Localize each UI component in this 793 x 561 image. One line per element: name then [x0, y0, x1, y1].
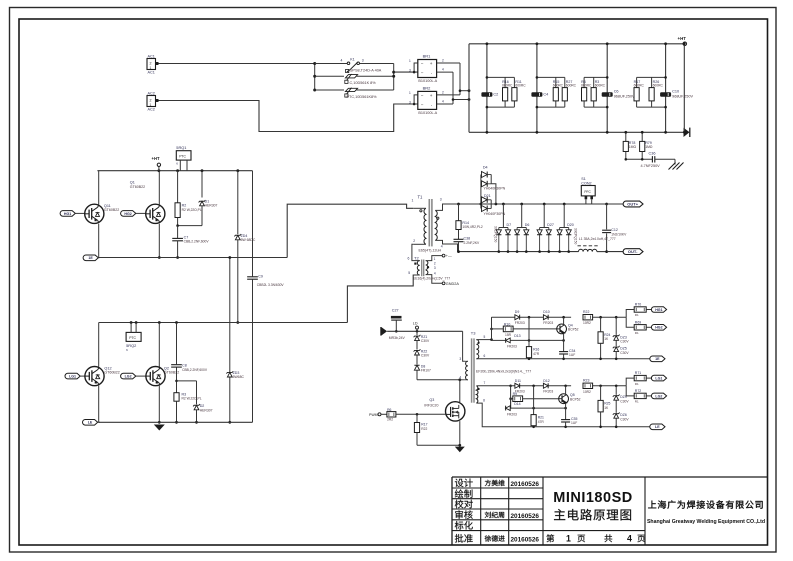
wire negative bottom bus	[469, 131, 684, 133]
net flag 1E return	[650, 356, 665, 362]
svg-text:R70: R70	[635, 303, 641, 307]
svg-text:3: 3	[362, 59, 364, 63]
zener RZ1	[414, 331, 430, 343]
wire AC2 to bridge BR2	[159, 101, 419, 132]
svg-text:1: 1	[409, 59, 411, 63]
resistor R79	[640, 131, 653, 159]
resistor R9	[511, 392, 559, 401]
svg-text:C6: C6	[614, 90, 619, 94]
capacitor C4	[531, 92, 548, 97]
svg-text:PFC: PFC	[584, 190, 591, 194]
capacitor C10	[660, 90, 693, 99]
svg-text:C,10D561K 8%: C,10D561K 8%	[350, 81, 377, 85]
resistor R10	[492, 322, 558, 337]
svg-text:BR2: BR2	[423, 86, 432, 91]
svg-text:HG2: HG2	[124, 212, 131, 216]
wire Q2 collector	[158, 323, 160, 367]
svg-text:C35: C35	[571, 417, 577, 421]
svg-text:1E: 1E	[88, 256, 93, 260]
transformer T2 primary winding	[408, 256, 420, 275]
svg-text:OUT-: OUT-	[628, 249, 638, 254]
wire bus right rail	[683, 42, 686, 133]
svg-text:R1: R1	[635, 331, 639, 335]
title block drawing title	[553, 490, 632, 521]
transformer T3 secondary winding ch1	[476, 340, 479, 359]
svg-text:MINI180SD: MINI180SD	[553, 490, 632, 506]
svg-text:PTC: PTC	[129, 336, 136, 340]
svg-text:CBB,2.2NF,600V: CBB,2.2NF,600V	[182, 368, 208, 372]
wire Q2 emitter	[158, 386, 161, 424]
wire snubber rail for cell C2	[486, 42, 489, 133]
svg-text:C7: C7	[184, 235, 189, 239]
wire bus left rail	[468, 44, 470, 133]
svg-text:C12: C12	[611, 228, 618, 232]
resistor R16	[502, 80, 513, 101]
resistor R69 gate drive	[626, 317, 652, 335]
transistor Q3	[424, 398, 465, 421]
svg-text:968UF,250V: 968UF,250V	[672, 95, 693, 99]
net flag LE lower emitter	[83, 420, 101, 426]
wire snubber rail for cell C4	[536, 42, 539, 133]
svg-text:Q4: Q4	[568, 323, 573, 327]
svg-text:R1: R1	[635, 313, 639, 317]
svg-text:YH040F30PN: YH040F30PN	[484, 186, 506, 190]
svg-text:HER307: HER307	[205, 204, 218, 208]
svg-text:3: 3	[409, 68, 411, 72]
svg-text:30CPQ150: 30CPQ150	[573, 228, 577, 244]
svg-text:6: 6	[484, 354, 486, 358]
svg-text:R22: R22	[421, 427, 427, 431]
wire ch1 top rail	[492, 316, 627, 319]
svg-text:−: −	[421, 103, 424, 108]
PTC resistor 5RQ2	[126, 323, 141, 353]
svg-text:BR1: BR1	[423, 54, 432, 59]
svg-text:600RC: 600RC	[502, 84, 513, 88]
wire Q12 collector	[98, 323, 100, 367]
svg-text:5: 5	[484, 335, 486, 339]
capacitor C6	[602, 90, 635, 99]
diode D8	[414, 355, 431, 380]
svg-text:K1: K1	[350, 58, 354, 62]
svg-text:C27: C27	[392, 309, 399, 313]
wire 24V rail	[387, 330, 463, 332]
resistor R21	[531, 386, 544, 428]
varistor RV2	[315, 88, 394, 99]
diode D9	[515, 310, 525, 325]
wire D8 to Q3 drain node	[417, 378, 461, 381]
svg-text:B10100L.A: B10100L.A	[418, 111, 437, 115]
wire T1 secondary top output	[435, 204, 458, 210]
transistor Q1	[130, 181, 165, 224]
svg-text:968UF,250V: 968UF,250V	[614, 95, 635, 99]
transformer T1 secondary winding	[413, 198, 443, 249]
svg-text:LG1: LG1	[655, 377, 662, 381]
svg-text:600RC: 600RC	[566, 84, 577, 88]
svg-text:600RC: 600RC	[595, 84, 606, 88]
wire T2 pin4 to GND2A terminal	[426, 275, 460, 286]
transistor Q5	[559, 386, 581, 408]
svg-text:1: 1	[566, 534, 571, 544]
svg-text:CBB2L 3.3N/630V: CBB2L 3.3N/630V	[257, 283, 285, 287]
svg-text:Q5: Q5	[570, 393, 575, 397]
connector AC1	[147, 54, 159, 74]
svg-text:D9: D9	[515, 310, 520, 314]
svg-text:D4: D4	[483, 166, 488, 170]
svg-text:IRF3C20: IRF3C20	[424, 404, 438, 408]
svg-text:Shanghai Greatway Welding Equi: Shanghai Greatway Welding Equipment CO.,…	[647, 519, 765, 525]
svg-text:R2: R2	[182, 203, 187, 207]
svg-text:SPS8,T24D-A 40A: SPS8,T24D-A 40A	[350, 69, 382, 73]
net flag OUT+	[607, 201, 643, 207]
resistor R26	[649, 80, 663, 101]
capacitor C8	[171, 323, 208, 393]
svg-text:20160526: 20160526	[511, 481, 540, 488]
diode D21 pair	[482, 194, 506, 216]
svg-text:GT60B22: GT60B22	[104, 371, 119, 375]
svg-text:+: +	[430, 61, 433, 66]
resistor R3	[591, 80, 605, 101]
wire ZD3 branch vertical	[228, 256, 231, 424]
svg-text:DZ5: DZ5	[620, 347, 627, 351]
svg-text:R6: R6	[387, 408, 391, 412]
diode D14	[505, 399, 567, 417]
svg-text:+—: +—	[446, 254, 452, 258]
svg-text:DZ6: DZ6	[620, 413, 627, 417]
capacitor C38	[454, 230, 481, 252]
svg-text:AC2: AC2	[148, 108, 155, 112]
svg-text:2: 2	[434, 261, 436, 265]
svg-text:D27: D27	[547, 223, 554, 227]
resistor R15	[553, 80, 564, 101]
node: relay bank right rail	[392, 64, 395, 91]
svg-text:600RC: 600RC	[653, 84, 664, 88]
wire snubber stubs for R15/R27	[536, 76, 565, 108]
resistor R14	[456, 204, 483, 230]
svg-text:C30V: C30V	[421, 353, 430, 357]
wire Q11 collector	[98, 171, 100, 205]
svg-text:1E: 1E	[655, 357, 660, 361]
wire ch1 base branch	[491, 317, 493, 339]
zener DZ3	[613, 317, 630, 344]
svg-text:GT60B22: GT60B22	[130, 185, 145, 189]
svg-text:YH040F30PN: YH040F30PN	[484, 212, 506, 216]
resistor R4	[581, 80, 592, 101]
svg-text:AC2: AC2	[148, 91, 155, 95]
wire upper emitter rail	[99, 257, 288, 259]
svg-text:1MΩ: 1MΩ	[629, 145, 637, 149]
svg-text:C30V: C30V	[620, 340, 629, 344]
capacitor C34	[559, 340, 575, 360]
svg-text:AC1: AC1	[148, 71, 155, 75]
resistor R22 series	[583, 310, 593, 325]
wire secondary top rail OUT+	[457, 203, 608, 206]
svg-text:2.2NF,2KV: 2.2NF,2KV	[464, 241, 481, 245]
net flag HG2	[651, 325, 666, 331]
transformer T3 secondary winding ch2	[476, 386, 479, 403]
transistor Q11	[85, 204, 120, 223]
svg-text:L1 35A,2x4.0uH,4T_777: L1 35A,2x4.0uH,4T_777	[579, 237, 616, 241]
wire Q12 emitter	[98, 386, 100, 423]
svg-text:T2: T2	[414, 256, 419, 261]
power flag DC24 input	[381, 327, 387, 336]
title block row labels	[455, 479, 540, 544]
svg-text:PTC: PTC	[179, 154, 186, 158]
svg-text:3: 3	[409, 100, 411, 104]
svg-text:CBB,2.2NF,600V: CBB,2.2NF,600V	[184, 240, 210, 244]
svg-text:2: 2	[442, 90, 444, 94]
svg-text:BCP52: BCP52	[568, 328, 579, 332]
transformer T1 core	[429, 199, 432, 246]
svg-text:HG1: HG1	[655, 308, 662, 312]
terminal PWM gate input	[369, 413, 387, 417]
svg-text:R21: R21	[538, 416, 544, 420]
svg-text:30CPQ150: 30CPQ150	[494, 226, 498, 242]
svg-text:R10: R10	[504, 322, 510, 326]
resistor R23 series	[583, 378, 593, 393]
title block company name	[647, 500, 765, 525]
wire Q3 drain	[459, 380, 461, 402]
svg-text:FR203: FR203	[543, 389, 553, 393]
zener DZ5	[613, 341, 630, 361]
wire ch2 top rail	[511, 385, 627, 388]
svg-text:FR203: FR203	[507, 412, 517, 416]
wire T1 primary return to T2	[412, 244, 420, 260]
resistor R27	[562, 80, 576, 101]
svg-text:D13: D13	[514, 334, 520, 338]
svg-text:C30V: C30V	[620, 418, 629, 422]
resistor R24	[598, 317, 611, 360]
svg-text:15R: 15R	[505, 333, 512, 337]
svg-text:4.7NF250V: 4.7NF250V	[641, 164, 661, 168]
svg-text:1: 1	[434, 257, 436, 261]
transformer T3 primary winding	[459, 357, 468, 380]
diode pair D6	[515, 204, 530, 253]
net flag LE return	[650, 424, 665, 430]
wire T1 secondary bottom output	[435, 240, 457, 251]
svg-text:R23: R23	[583, 378, 589, 382]
svg-text:3: 3	[459, 357, 461, 361]
svg-text:D7: D7	[507, 223, 512, 227]
power port +HT upper section	[152, 156, 161, 171]
wire Q1 emitter	[158, 224, 161, 259]
svg-text:−: −	[421, 61, 424, 66]
zener DZ9	[613, 386, 630, 404]
net flag 1E upper emitter	[83, 255, 100, 261]
svg-text:C36: C36	[649, 152, 656, 156]
svg-text:R24: R24	[604, 333, 610, 337]
capacitor C12	[602, 204, 627, 253]
svg-text:5: 5	[408, 271, 410, 275]
wire +HT top bus	[469, 43, 683, 45]
wire secondary bottom rail	[457, 250, 578, 253]
resistor R70 gate drive	[626, 303, 652, 318]
svg-text:Q3: Q3	[429, 398, 434, 402]
svg-text:47R: 47R	[533, 352, 540, 356]
svg-text:T3: T3	[471, 330, 476, 335]
wire ch1 coil top to rail	[476, 339, 491, 341]
zener ZD3	[226, 371, 244, 379]
svg-text:8: 8	[483, 399, 485, 403]
inductor L1	[578, 237, 616, 252]
diode D1	[199, 171, 218, 226]
transformer T3 core	[471, 330, 476, 402]
svg-text:1: 1	[409, 91, 411, 95]
svg-text:LE: LE	[88, 421, 93, 425]
wire bridge outputs to DC bus	[452, 63, 471, 104]
wire bridge mid to T1 primary	[287, 204, 413, 257]
svg-text:5RQ1: 5RQ1	[176, 145, 186, 150]
svg-text:5W 68DC: 5W 68DC	[241, 238, 256, 242]
wire ch2 base branch	[510, 386, 512, 408]
diode D11	[515, 379, 525, 394]
resistor R78	[623, 131, 636, 159]
svg-text:4: 4	[627, 534, 632, 544]
power flag on bottom bus	[684, 128, 690, 137]
wire ch1 coil bottom rail	[476, 358, 651, 360]
wire snubber rail for cell C6	[606, 42, 609, 133]
capacitor C9	[247, 171, 284, 423]
svg-text:+HT: +HT	[678, 36, 687, 41]
transformer T2 core	[422, 260, 424, 277]
diode D2	[177, 381, 213, 424]
transistor Q2	[146, 366, 179, 385]
svg-text:FR203: FR203	[543, 321, 553, 325]
wire snubber stubs for R4/R3	[584, 76, 608, 108]
wire snubber stubs for R17/R26	[637, 76, 667, 108]
svg-text:−: −	[421, 71, 424, 76]
svg-text:C30V: C30V	[421, 339, 430, 343]
svg-text:LG2: LG2	[655, 394, 662, 398]
svg-text:−: −	[421, 93, 424, 98]
net flag LG1	[65, 373, 85, 379]
svg-text:PWM: PWM	[369, 413, 378, 417]
svg-text:600RC: 600RC	[515, 84, 526, 88]
svg-text:C30V: C30V	[620, 400, 629, 404]
svg-text:C30V: C30V	[620, 351, 629, 355]
capacitor C7	[172, 226, 209, 259]
svg-text:1MΩ: 1MΩ	[645, 145, 653, 149]
zener RZ2	[414, 341, 430, 358]
svg-text:HG1: HG1	[64, 212, 71, 216]
svg-text:D12: D12	[543, 379, 549, 383]
diode pair D27	[537, 204, 554, 253]
svg-text:BCP52: BCP52	[570, 398, 581, 402]
svg-text:R22: R22	[583, 310, 589, 314]
svg-text:C2: C2	[493, 93, 498, 97]
diode pair D20	[557, 204, 574, 253]
svg-text:20160526: 20160526	[511, 513, 540, 520]
svg-text:1: 1	[412, 199, 414, 203]
svg-text:4: 4	[441, 245, 443, 249]
svg-text:1UF: 1UF	[571, 421, 577, 425]
svg-text:HG2: HG2	[655, 326, 662, 330]
diode pair D7	[496, 204, 511, 253]
svg-text:C8: C8	[182, 363, 187, 367]
svg-text:10W,4R2,PL2: 10W,4R2,PL2	[462, 225, 483, 229]
capacitor C2	[481, 92, 498, 97]
svg-text:10R2: 10R2	[583, 390, 591, 394]
svg-text:R72: R72	[635, 389, 641, 393]
zener ZD4	[234, 171, 255, 324]
svg-text:R69: R69	[635, 320, 641, 324]
wire lower section collector rail	[99, 321, 348, 324]
svg-text:GND2A: GND2A	[446, 282, 460, 286]
svg-text:FR203: FR203	[507, 345, 517, 349]
net flag LG1	[651, 375, 666, 381]
connector S1 CON2	[581, 177, 595, 204]
svg-text:+: +	[430, 93, 433, 98]
svg-text:EF20b,150k,4Nx9,2x3(9)N1+L_777: EF20b,150k,4Nx9,2x3(9)N1+L_777	[476, 369, 531, 373]
svg-text:C34: C34	[569, 349, 575, 353]
svg-text:2: 2	[442, 58, 444, 62]
resistor R16	[526, 317, 539, 360]
svg-text:10R2: 10R2	[583, 321, 591, 325]
svg-text:FR203: FR203	[515, 321, 525, 325]
svg-text:EE16(4),20uH(2,5V_777: EE16(4),20uH(2,5V_777	[413, 277, 450, 281]
svg-text:600RC: 600RC	[553, 84, 564, 88]
bridge rectifier BR1	[409, 54, 460, 83]
svg-text:R2 W,22Ω,PL: R2 W,22Ω,PL	[182, 397, 202, 401]
title block page numbers	[546, 534, 645, 544]
svg-text:MR3b,24V: MR3b,24V	[389, 336, 406, 340]
svg-text:R16: R16	[533, 348, 539, 352]
wire Q1 collector	[158, 171, 160, 205]
svg-text:LD: LD	[413, 321, 418, 325]
svg-text:1: 1	[150, 66, 152, 70]
svg-text:R71: R71	[635, 371, 641, 375]
net flag LG2	[121, 373, 146, 379]
svg-text:D14: D14	[514, 402, 520, 406]
diode D4 pair	[481, 166, 506, 209]
capacitor C35	[561, 408, 577, 428]
diode D12	[543, 379, 553, 394]
svg-text:47R: 47R	[538, 420, 545, 424]
svg-text:B10100L.A: B10100L.A	[418, 79, 437, 83]
wire upper section +HT rail	[97, 169, 252, 172]
svg-text:20160526: 20160526	[511, 537, 540, 544]
resistor R11	[512, 80, 526, 101]
wire 24V to T3 primary	[463, 331, 465, 361]
zener DZ6	[613, 400, 630, 428]
capacitor C36	[625, 152, 676, 169]
node: relay bank left rail	[313, 62, 316, 92]
diode D10	[543, 310, 553, 325]
resistor R72 gate drive	[626, 386, 652, 404]
svg-text:1UF: 1UF	[569, 353, 575, 357]
svg-text:600RC: 600RC	[581, 84, 592, 88]
svg-text:4: 4	[442, 68, 444, 72]
power ground under Q2	[154, 425, 165, 431]
wire T2 pin1 to + terminal	[426, 254, 452, 260]
svg-text:PTC,10D561K8%: PTC,10D561K8%	[347, 95, 378, 99]
bridge rectifier BR2	[409, 86, 460, 115]
svg-text:R9: R9	[513, 392, 518, 396]
svg-text:4: 4	[442, 100, 444, 104]
svg-text:D10: D10	[543, 310, 549, 314]
svg-text:D11: D11	[515, 379, 521, 383]
svg-text:3: 3	[434, 266, 436, 270]
capacitor C27	[391, 309, 402, 333]
svg-text:FR107: FR107	[421, 368, 431, 372]
svg-text:4: 4	[434, 271, 436, 275]
connector AC2	[147, 91, 159, 111]
svg-text:+HT: +HT	[152, 156, 160, 161]
resistor R71 gate drive	[626, 371, 652, 386]
svg-text:6: 6	[408, 257, 410, 261]
wire lower emitter rail	[99, 421, 253, 423]
svg-text:HER307: HER307	[200, 408, 213, 412]
svg-text:AC1: AC1	[148, 54, 155, 58]
